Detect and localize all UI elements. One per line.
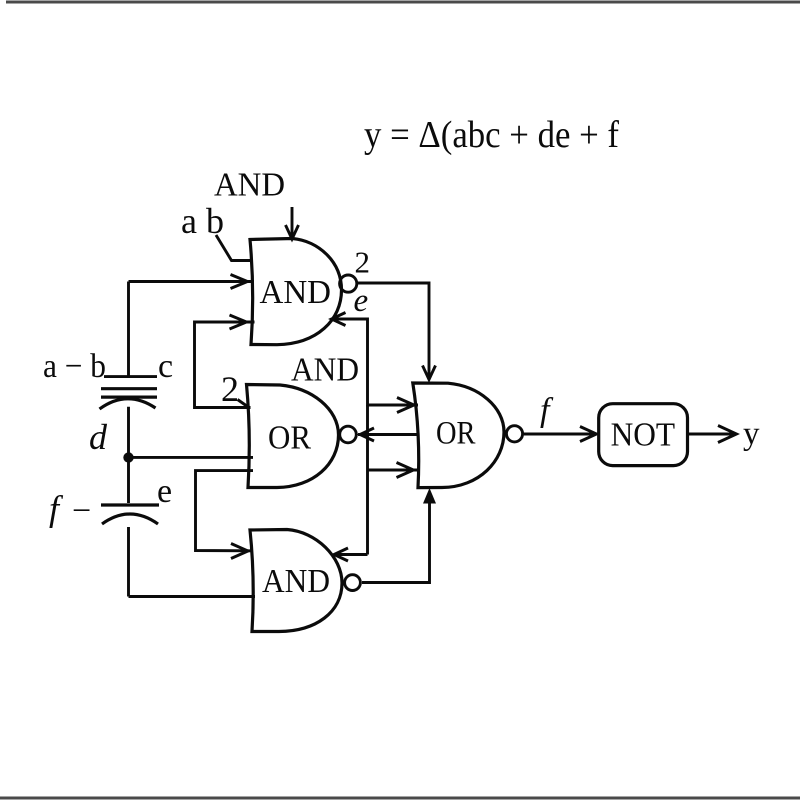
svg-text:OR: OR [436,416,476,452]
far-left vertical wire segment A [127,282,130,377]
svg-text:2: 2 [355,245,371,280]
svg-text:OR: OR [268,420,311,457]
top border line [6,1,800,4]
capacitor C1 plate 2 [101,396,157,399]
svg-text:NOT: NOT [611,417,676,454]
far-left vertical wire segment B [127,407,130,503]
output bubble of U1 [340,275,357,292]
svg-text:AND: AND [214,167,285,204]
far-left vertical wire segment C [127,527,130,597]
svg-text:e: e [354,283,369,319]
capacitor C1 top connection line b-c [104,375,157,378]
svg-text:e: e [157,473,172,510]
wire bottom input of U4 [129,595,256,598]
svg-text:y = Δ(abc + de + f: y = Δ(abc + de + f [364,114,619,156]
svg-text:a − b: a − b [43,348,106,385]
output bubble of U3 [506,426,522,442]
wire node d to middle OR [129,456,254,459]
output bubble of U4 [345,575,361,591]
wire U3 output to NOT [524,427,597,442]
capacitor C2 curved plate [102,514,158,524]
junction dot node d [123,452,133,462]
svg-text:AND: AND [262,563,330,600]
bottom border line [0,797,800,800]
capacitor C1 curved plate [100,399,156,409]
capacitor C2 plate [101,503,159,506]
OR gate U2 (middle) [247,385,339,488]
wire input1 to U1 [129,275,255,289]
arrow into top of gate U1 [286,207,299,239]
wire U1 output to right OR top [358,283,436,380]
svg-text:AND: AND [291,352,359,389]
wire bottom AND output up into U3 (filled arrow) [362,494,430,583]
AND gate U1 (top NAND) [250,239,342,345]
svg-text:d: d [89,417,108,457]
AND gate U4 (bottom) [250,530,342,632]
svg-text:y: y [743,416,760,452]
pointer line from label a b [216,235,253,261]
svg-text:c: c [158,348,173,385]
OR gate U3 (right) [413,383,504,488]
wire U2 output to right OR with left arrow [358,428,419,441]
wire input2 to U1 from middle OR link [195,315,255,408]
output bubble of U2 [340,426,357,443]
NOT box U5 [599,404,688,466]
wire e-feedback from right OR to U1 [332,313,419,413]
pointer stroke from 2 to gate edge [238,400,248,407]
svg-text:−: − [72,493,91,530]
capacitor C1 plate 1 [101,387,157,390]
svg-text:2: 2 [221,369,239,409]
vertical link wire x=367.5 with two right arrows and bottom-left arrow [334,405,419,561]
svg-text:AND: AND [260,274,332,311]
wire NOT output to y [688,426,737,443]
wire U2 bottom input link to U4 [196,471,254,559]
